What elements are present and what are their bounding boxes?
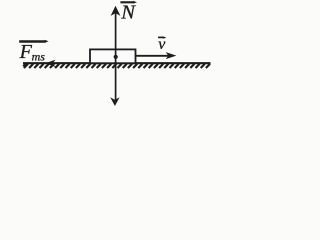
vector arrow over v [158,36,164,38]
normal force N arrowhead (up) [111,6,121,16]
center of mass dot [114,55,118,59]
friction force arrowhead (left, on ground line) [46,60,56,67]
vector arrow over F [19,40,46,42]
weight arrowhead (down) [110,97,119,106]
velocity v arrow [136,55,169,57]
svg-text:F: F [19,41,33,63]
svg-text:N: N [120,2,136,24]
svg-text:v: v [158,36,166,53]
ground hatching [23,64,210,68]
block (box on ground) [90,49,136,63]
ground surface line [23,62,211,64]
svg-text:ms: ms [32,50,46,64]
vector bar over N [120,1,134,3]
wire: vertical force line through block center [115,12,117,101]
